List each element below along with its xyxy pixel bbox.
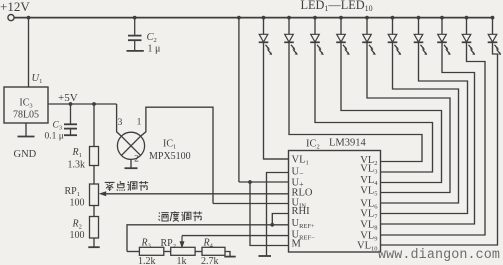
sensor IC1 circle bbox=[117, 132, 144, 159]
svg-text:1.3k: 1.3k bbox=[68, 160, 86, 171]
LED4 bbox=[339, 16, 343, 20]
wire RHI tie bbox=[272, 214, 288, 225]
wire UIN pin bbox=[213, 203, 289, 205]
wire LED7 to VL7 bbox=[381, 47, 468, 214]
wiper RP2 arrow bbox=[181, 236, 183, 243]
+12V input terminal bbox=[8, 15, 14, 21]
ground R2 bbox=[88, 246, 99, 248]
wire U+ to M bbox=[250, 182, 289, 246]
wire LED1 to VL1 bbox=[264, 47, 289, 160]
wire +5V rail bbox=[48, 103, 117, 105]
resistor R3 bbox=[139, 247, 163, 255]
svg-text:2: 2 bbox=[134, 155, 139, 165]
wire +12V to U+ bbox=[238, 18, 240, 182]
svg-text:GND: GND bbox=[14, 149, 37, 160]
wire RP2-R4 bbox=[195, 251, 202, 253]
ground U- bbox=[259, 255, 272, 257]
node U+/M tie bbox=[248, 180, 252, 184]
svg-text:+12V: +12V bbox=[0, 0, 30, 14]
capacitor C2 bbox=[134, 18, 136, 35]
ground R4 bbox=[224, 256, 235, 258]
wire R1-RP1 bbox=[93, 166, 95, 185]
svg-text:1.2k: 1.2k bbox=[138, 256, 156, 265]
wire R4 to ground bbox=[225, 252, 230, 257]
wire +12V top rail bbox=[14, 17, 492, 19]
LED8 bbox=[440, 16, 444, 20]
text zero-adjust bbox=[105, 182, 115, 191]
wire U+ pin bbox=[239, 181, 289, 183]
wiper arrow RP1 bbox=[99, 191, 107, 196]
wire R2 to ground bbox=[93, 238, 95, 247]
wire UREF+ full-scale line bbox=[127, 225, 289, 252]
pin 2 wire bbox=[130, 159, 132, 168]
sensor X bbox=[121, 136, 140, 155]
resistor R1 bbox=[90, 147, 99, 166]
node RHI/UREF+ junction bbox=[270, 223, 274, 227]
wire R3-RP2 bbox=[164, 251, 171, 253]
svg-text:1 μ: 1 μ bbox=[148, 44, 161, 55]
pin 3 wire bbox=[117, 104, 122, 136]
svg-text:100: 100 bbox=[70, 230, 85, 241]
svg-text:MPX5100: MPX5100 bbox=[149, 151, 191, 162]
resistor R4 bbox=[202, 247, 225, 255]
wire UREF- pin bbox=[182, 235, 289, 237]
wire LED10 to VL10 bbox=[381, 47, 498, 246]
wire to U1 input bbox=[28, 18, 30, 87]
pin 1 wire bbox=[141, 107, 213, 203]
wire U1 gnd bbox=[25, 123, 27, 136]
ground C2 bbox=[127, 50, 144, 52]
LED2 bbox=[287, 16, 291, 20]
node C3 bbox=[69, 102, 73, 106]
svg-text:78L05: 78L05 bbox=[13, 110, 39, 121]
capacitor C3 bbox=[70, 104, 72, 124]
wire LED9 to VL9 bbox=[381, 47, 486, 236]
node U+ branch bbox=[237, 16, 241, 20]
svg-text:1: 1 bbox=[137, 118, 142, 128]
LED1 bbox=[262, 16, 266, 20]
IC U2 box bbox=[289, 151, 381, 253]
wire VL1 pin bbox=[264, 158, 289, 160]
LED9 bbox=[465, 16, 469, 20]
LED10 bbox=[491, 16, 495, 20]
wire LED5 to VL5 bbox=[367, 47, 450, 193]
wire row left bbox=[127, 251, 139, 253]
svg-text:U−: U− bbox=[292, 167, 305, 179]
ground C3 bbox=[64, 134, 77, 136]
svg-text:100: 100 bbox=[70, 198, 85, 209]
svg-text:3: 3 bbox=[118, 118, 123, 128]
resistor R2 bbox=[90, 217, 99, 239]
node C2 bbox=[133, 16, 137, 20]
node R1 branch bbox=[92, 102, 96, 106]
svg-text:+5V: +5V bbox=[58, 92, 78, 104]
svg-text:LED1—LED10: LED1—LED10 bbox=[301, 0, 373, 13]
wire LED8 to VL8 bbox=[381, 47, 475, 225]
svg-text:LM3914: LM3914 bbox=[329, 138, 367, 149]
potentiometer RP1 bbox=[90, 184, 99, 206]
svg-text:1k: 1k bbox=[177, 256, 187, 265]
wire LED2 to VL2 bbox=[289, 47, 422, 162]
LED7 bbox=[417, 16, 421, 20]
regulator U1 box bbox=[4, 87, 48, 123]
wire RLO zero-adjust bbox=[105, 193, 289, 195]
LED3 bbox=[313, 16, 317, 20]
LED6 bbox=[391, 16, 395, 20]
svg-text:www.diangon.com: www.diangon.com bbox=[378, 248, 500, 263]
svg-text:RHI: RHI bbox=[292, 206, 311, 217]
node U1 branch bbox=[27, 16, 31, 20]
wire LED6 to VL6 bbox=[381, 47, 459, 204]
svg-text:2.7k: 2.7k bbox=[201, 256, 219, 265]
LED5 bbox=[365, 16, 369, 20]
wire LED3 to VL3 bbox=[315, 47, 433, 173]
svg-text:M: M bbox=[292, 239, 302, 250]
svg-text:0.1 μ: 0.1 μ bbox=[45, 132, 64, 142]
wire +5V to R1 bbox=[93, 104, 95, 147]
wire U- to ground bbox=[267, 173, 289, 256]
text full-scale-adjust bbox=[159, 212, 169, 221]
wire LED4 to VL4 bbox=[341, 47, 442, 183]
ground sensor bbox=[125, 167, 138, 169]
ground U1 bbox=[18, 136, 35, 138]
potentiometer RP2 bbox=[171, 247, 195, 255]
wire RP1-R2 bbox=[93, 206, 95, 217]
